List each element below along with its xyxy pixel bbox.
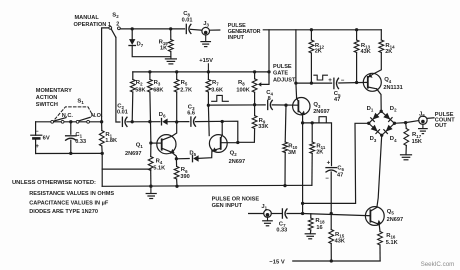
wire C7 to Q3 drop [287, 213, 303, 215]
connector J1 [264, 210, 272, 218]
transistor Q2 emitter inside [212, 148, 221, 151]
transistor Q4 circle [363, 73, 381, 91]
wire C4 to Q3 base [272, 104, 298, 106]
wire Q3 collector node to C5 [296, 82, 332, 84]
node R12 top [310, 28, 313, 31]
svg-text:R6: R6 [181, 167, 188, 174]
ground R18 [305, 233, 315, 235]
wire battery bottom rail [36, 152, 103, 154]
resistor R2 [132, 72, 134, 80]
wire D5 to Q2 emitter [199, 151, 212, 159]
node R10 bottom [283, 184, 286, 187]
node pulse-gen drop on +15V rail [267, 70, 270, 73]
battery B1 plates [31, 134, 42, 136]
node bridge right [393, 122, 396, 125]
svg-text:S1: S1 [77, 98, 84, 105]
svg-text:C1: C1 [75, 132, 82, 139]
svg-text:2K: 2K [385, 49, 392, 55]
wire pulse gen drop to wiper [261, 30, 269, 85]
node R2 top [0, 0, 1, 1]
node R15 bottom [330, 259, 333, 262]
S1 contact a [51, 120, 54, 123]
resistor R3 [149, 72, 151, 80]
node R3 top [148, 70, 151, 73]
potentiometer R8 [254, 72, 256, 79]
svg-text:R8: R8 [238, 80, 245, 87]
ground R17 [401, 154, 412, 156]
node C1 top [69, 120, 72, 123]
node C1 bottom [69, 152, 72, 155]
svg-text:0.01: 0.01 [117, 110, 128, 116]
svg-text:SWITCH: SWITCH [36, 102, 58, 108]
svg-text:+: + [327, 159, 331, 166]
resistor R6 [175, 159, 177, 167]
svg-text:5.1K: 5.1K [386, 240, 398, 246]
resistor R7 [207, 72, 209, 80]
svg-text:+15V: +15V [199, 58, 213, 64]
svg-text:47: 47 [334, 97, 340, 103]
wire Q2 collector up [221, 122, 223, 135]
node R10 top [284, 104, 287, 107]
transistor Q5 emitter inside [370, 221, 379, 225]
node R13 bottom [355, 81, 358, 84]
transistor Q1 emitter arrow [170, 149, 175, 154]
svg-text:R5: R5 [181, 80, 188, 87]
resistor R1 [101, 122, 103, 131]
node R3 crossing [148, 120, 151, 123]
svg-text:0.01: 0.01 [182, 17, 193, 23]
transistor Q5 circle [365, 207, 384, 226]
wire C6 bottom to J1 wire [330, 172, 332, 214]
waveform glyph inverted at C5 [314, 75, 328, 80]
svg-text:Q4: Q4 [384, 77, 392, 84]
node R19 top [169, 27, 172, 30]
svg-text:47: 47 [337, 172, 343, 178]
node R17 top [404, 121, 407, 124]
wire drop continues to Q3 [295, 83, 298, 98]
S1 contact c [76, 120, 79, 123]
ground J1 [267, 217, 269, 220]
svg-text:16: 16 [316, 225, 322, 231]
node Q2 collector top [221, 120, 224, 123]
svg-text:2K: 2K [315, 49, 322, 55]
node R5 C3 junction [175, 120, 178, 123]
wire bridge left vertex down-around [303, 123, 369, 203]
svg-text:Q5: Q5 [387, 209, 395, 216]
transistor Q5 emitter arrow [377, 220, 381, 225]
transistor Q2 base bar [220, 138, 222, 149]
svg-text:D7: D7 [137, 41, 144, 48]
svg-text:3M: 3M [288, 150, 296, 156]
svg-text:C6: C6 [337, 166, 344, 173]
wire S2 arm down to C2 [116, 37, 120, 122]
transistor Q2 emitter arrow [212, 147, 217, 152]
node C2 R2 junction [131, 120, 134, 123]
capacitor C4 [267, 100, 269, 109]
svg-text:43K: 43K [335, 239, 345, 245]
S1 arm right [79, 117, 90, 121]
transistor Q2 collector inside [221, 135, 223, 139]
node battery rail R1 [101, 152, 104, 155]
svg-text:6V: 6V [43, 135, 50, 141]
svg-text:DIODES ARE TYPE 1N270: DIODES ARE TYPE 1N270 [29, 209, 98, 215]
svg-text:8: 8 [268, 96, 271, 102]
resistor R9 [254, 105, 256, 116]
switch S2 arm [111, 29, 116, 38]
wire Q3 emitter to C6 corner [303, 123, 332, 166]
capacitor C8 [185, 24, 187, 33]
wire R14 to Q4 emitter [374, 53, 381, 74]
connector J3 [202, 27, 210, 35]
wire Q3 emitter drop lower [302, 123, 304, 214]
wire ground rail [102, 185, 312, 186]
resistor R13 [356, 30, 358, 40]
wire C8 to J3 [191, 28, 202, 31]
svg-text:ADJUST: ADJUST [273, 78, 296, 84]
transistor Q1 circle [157, 135, 176, 154]
transistor Q3 base bar [297, 101, 299, 111]
transistor Q5 base bar [369, 210, 371, 221]
node R7 mid junction [207, 104, 210, 107]
wire Q1 emitter to D5 [176, 158, 189, 160]
switch S2 terminal 2 [118, 27, 121, 30]
node T at Q3 emitter drop [301, 202, 304, 205]
wire C1 bottom lead [70, 140, 72, 153]
svg-text:58K: 58K [135, 88, 145, 94]
svg-text:UNLESS OTHERWISE NOTED:: UNLESS OTHERWISE NOTED: [12, 180, 96, 186]
transistor Q3 emitter arrow [301, 111, 305, 115]
svg-text:100K: 100K [236, 88, 249, 94]
wire Q5 emitter to R16 [378, 225, 381, 232]
resistor R14 [380, 30, 382, 40]
S1 arm left [54, 118, 66, 122]
svg-text:+: + [328, 77, 332, 84]
wire +15V rail [133, 71, 269, 73]
svg-text:5.1K: 5.1K [153, 165, 165, 171]
transistor Q4 collector inside [368, 87, 377, 89]
resistor R15 [330, 214, 332, 230]
ground R19 [170, 57, 172, 59]
resistor R11 [311, 123, 313, 142]
pot wiper arrow [258, 82, 261, 86]
node R11 top [311, 121, 314, 124]
node R13 top [355, 28, 358, 31]
svg-text:−: − [325, 176, 329, 182]
wire R19 bottom lead [170, 52, 172, 57]
transistor Q5 collector inside [370, 207, 376, 211]
svg-text:J2: J2 [419, 112, 425, 119]
svg-text:6.6: 6.6 [187, 110, 195, 116]
wire second drop to Q3 collector [295, 30, 297, 83]
svg-text:PULSE OR NOISE: PULSE OR NOISE [212, 196, 260, 202]
wire J3 to text gap [210, 29, 220, 31]
wire S2 terminal1 to left corner and down to S1 N.O. node [102, 28, 109, 122]
transistor Q2 circle [209, 135, 227, 153]
svg-text:2N1131: 2N1131 [383, 85, 402, 91]
svg-text:PULSE: PULSE [273, 64, 292, 70]
svg-text:2N697: 2N697 [125, 151, 141, 157]
diode D4 [382, 123, 395, 135]
wire Q5 base from J1 line [303, 214, 371, 216]
svg-text:33K: 33K [258, 124, 268, 130]
wire R13 lead [356, 53, 358, 83]
resistor R18 [310, 214, 312, 218]
svg-text:OPERATION 1: OPERATION 1 [74, 22, 112, 28]
wire D6 to C3 [168, 121, 189, 123]
waveform glyph at Q3 emitter [319, 117, 326, 123]
diode D5 [192, 155, 194, 161]
resistor R12 [310, 30, 312, 40]
ground J3 [205, 35, 207, 41]
diode D6 [161, 119, 163, 125]
svg-text:J1: J1 [261, 204, 267, 211]
svg-text:R3: R3 [154, 80, 161, 87]
node R8 top [253, 70, 256, 73]
svg-text:R16: R16 [386, 233, 396, 240]
svg-text:0.33: 0.33 [75, 139, 86, 145]
svg-text:3.6K: 3.6K [211, 88, 223, 94]
transistor Q1 collector [162, 122, 177, 140]
svg-text:2N697: 2N697 [387, 217, 403, 223]
svg-text:R7: R7 [212, 80, 219, 87]
transistor Q3 circle [293, 98, 310, 115]
wire battery bottom lead [35, 140, 37, 154]
S1 contact d [87, 120, 90, 123]
diode D7 [129, 39, 135, 45]
wire C3 to Q2 base drop [195, 121, 237, 142]
svg-text:0.33: 0.33 [276, 228, 287, 234]
svg-text:2.7K: 2.7K [180, 88, 192, 94]
svg-text:2N697: 2N697 [313, 109, 329, 115]
ground J2 [422, 124, 424, 128]
svg-text:J3: J3 [203, 21, 209, 28]
resistor R10 [284, 105, 287, 142]
svg-text:R4: R4 [156, 158, 163, 165]
svg-text:2K: 2K [316, 150, 323, 156]
node D7 top [131, 27, 134, 30]
transistor Q3 emitter inside [298, 111, 302, 115]
svg-text:43K: 43K [361, 49, 371, 55]
wire -15V rail [293, 260, 380, 262]
node R7 top [207, 70, 210, 73]
svg-text:MOMENTARY: MOMENTARY [36, 88, 72, 94]
svg-text:D1: D1 [367, 106, 374, 113]
capacitor C2 [121, 117, 123, 126]
wire mid R7 to C4 [208, 104, 265, 106]
transistor Q3 collector inside [297, 98, 299, 102]
node bridge left [367, 122, 370, 125]
svg-text:MANUAL: MANUAL [75, 15, 100, 21]
node Q3 collector junction [294, 81, 297, 84]
wire +15V tick [207, 64, 209, 72]
node Q2 base junction [236, 141, 239, 144]
wire loop battery node to R4 bottom [102, 168, 151, 170]
capacitor C3 [190, 117, 192, 126]
capacitor C5 [333, 78, 335, 88]
transistor Q4 base bar [367, 77, 369, 88]
node bridge bottom [380, 134, 383, 137]
wire C5 to Q4 base [339, 81, 368, 84]
node R4 bottom [149, 185, 152, 188]
resistor R16 [378, 232, 383, 246]
wire left riser to ground rail [101, 153, 103, 186]
resistor R17 [405, 123, 408, 129]
resistor R4 [150, 143, 152, 156]
wire battery top lead [35, 122, 37, 135]
transistor Q4 emitter inside [368, 74, 373, 78]
svg-text:68K: 68K [153, 88, 163, 94]
node Q1 base junction [149, 141, 152, 144]
svg-text:GEN INPUT: GEN INPUT [212, 203, 243, 209]
dashed S1 linkage [55, 107, 93, 119]
node Q3 emitter junction [301, 121, 304, 124]
switch S2 terminal 1 [109, 27, 112, 30]
capacitor C1 [66, 135, 76, 137]
wire top rail to R14 [263, 29, 381, 31]
svg-text:Q1: Q1 [136, 143, 144, 150]
wire D7 bottom to R19 bottom [132, 46, 171, 57]
svg-text:D2: D2 [390, 106, 397, 113]
wire Q2 base to junction [221, 142, 238, 144]
svg-text:−15 V: −15 V [269, 259, 284, 265]
wire Q1 base [151, 142, 162, 144]
svg-text:D3: D3 [370, 136, 377, 143]
node Q1 emitter junction [175, 157, 178, 160]
svg-text:S2: S2 [112, 13, 119, 20]
svg-text:INPUT: INPUT [228, 35, 245, 41]
resistor R19 [168, 40, 173, 52]
wire J2 stub right [427, 117, 434, 120]
node S2 drop junction [100, 120, 103, 123]
node bridge top [380, 110, 383, 113]
svg-text:Q2: Q2 [230, 150, 238, 157]
wire text to J1 [249, 213, 264, 215]
wire D7 branch down [131, 29, 133, 39]
node J1 wire junction [301, 212, 304, 215]
capacitor C6 [326, 167, 336, 169]
capacitor C7 [281, 209, 283, 218]
node R12 bottom [310, 81, 313, 84]
svg-text:D5: D5 [189, 151, 196, 158]
diode D3 [369, 123, 382, 135]
svg-text:1K: 1K [160, 45, 167, 51]
wire C1 top lead [70, 122, 72, 134]
wire J1 to C7 [271, 213, 281, 215]
wire S1 contact row [36, 121, 102, 123]
wire R7 line to Q2 collector [207, 105, 210, 135]
wire S2 terminal2 to C8 [120, 28, 184, 30]
node R8 R9 mid junction [253, 103, 256, 106]
svg-text:R2: R2 [136, 80, 143, 87]
svg-text:390: 390 [180, 174, 189, 180]
svg-text:1.8K: 1.8K [105, 138, 117, 144]
svg-text:R18: R18 [315, 218, 325, 225]
transistor Q1 base bar [161, 139, 163, 149]
wire bridge right to J2 [395, 121, 419, 124]
svg-text:2N697: 2N697 [229, 159, 245, 165]
node R6 bottom [175, 185, 178, 188]
svg-text:SeekIC.com: SeekIC.com [421, 261, 455, 268]
waveform glyph under R7 [212, 95, 229, 101]
svg-text:15K: 15K [412, 139, 422, 145]
wire C2 to D6 [127, 121, 160, 123]
connector J2 [419, 116, 427, 124]
svg-text:R17: R17 [412, 132, 422, 139]
svg-text:GATE: GATE [273, 71, 288, 77]
svg-text:Q3: Q3 [313, 102, 321, 109]
svg-text:OUT: OUT [435, 123, 447, 129]
node C6 R15 junction [330, 212, 333, 215]
svg-text:D4: D4 [390, 136, 397, 143]
S1 contact b [61, 120, 64, 123]
resistor R5 [176, 72, 178, 80]
node R5 top [175, 70, 178, 73]
svg-text:N.O.: N.O. [91, 113, 103, 119]
svg-text:D6: D6 [159, 112, 166, 119]
svg-text:RESISTANCE VALUES IN OHMS: RESISTANCE VALUES IN OHMS [29, 191, 114, 197]
wire R12 lead [310, 53, 312, 83]
wire bridge bottom to Q5 collector [377, 135, 382, 207]
diode D2 [381, 111, 394, 123]
svg-text:ACTION: ACTION [36, 95, 57, 101]
wire Q4 collector to bridge [377, 89, 382, 112]
transistor Q4 emitter arrow [368, 73, 372, 78]
wire Q3 emitter down [302, 115, 304, 123]
node drop to pot wiper [0, 0, 1, 1]
wire R19 top lead [170, 29, 172, 40]
ground main [150, 186, 152, 193]
transistor Q1 emitter [162, 148, 177, 159]
svg-text:CAPACITANCE VALUES IN µF: CAPACITANCE VALUES IN µF [29, 200, 109, 206]
diode D1 [369, 111, 382, 123]
